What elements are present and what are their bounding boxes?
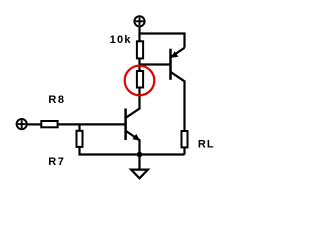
wire: Q2 collector down to RL: [183, 81, 185, 132]
resistor 10k (vertical): [137, 41, 143, 58]
wire: junction down to R7: [78, 124, 80, 131]
input terminal (circle with plus): [17, 119, 27, 129]
Q2 emitter arrow (points into bar: PNP): [171, 51, 179, 58]
resistor RL (vertical): [182, 131, 188, 147]
supply terminal VCC (circle with plus): [134, 16, 144, 26]
wire: VCC down to R top: [138, 26, 140, 42]
junction dot: [137, 152, 143, 158]
resistor R7 (vertical): [77, 131, 83, 147]
svg-text:10k: 10k: [110, 34, 132, 46]
resistor R8 (horizontal): [41, 121, 57, 127]
wire: terminal to R8: [27, 123, 41, 125]
Q2 collector diagonal: [171, 72, 185, 81]
transistor Q1 (NPN): [126, 108, 140, 140]
Q2 emitter diagonal: [171, 48, 185, 57]
red highlight circle: [125, 66, 155, 96]
Q1 collector diagonal: [126, 108, 140, 117]
svg-text:RL: RL: [198, 139, 215, 151]
wire: RL bottom to ground rail: [183, 147, 185, 154]
Q1 bar: [124, 109, 127, 141]
wire: between resistors: [138, 58, 140, 71]
wire: Q1 emitter down to node: [138, 140, 140, 155]
wire: node to PNP base: [140, 63, 171, 65]
Q2 bar: [169, 49, 172, 80]
Q1 emitter diagonal: [126, 131, 140, 140]
wire: resistor to NPN collector: [138, 88, 140, 110]
svg-text:R7: R7: [48, 156, 65, 168]
wire: top rail to PNP emitter: [140, 34, 185, 48]
wire: R7 bottom to ground rail: [80, 147, 185, 155]
Q1 emitter arrow: [133, 134, 141, 141]
ground: [131, 155, 148, 179]
svg-text:R8: R8: [48, 94, 65, 106]
wire: R8 to Q1 base: [58, 123, 125, 125]
resistor (unlabeled, circled, vertical): [137, 71, 143, 88]
transistor Q2 (PNP): [171, 48, 185, 82]
